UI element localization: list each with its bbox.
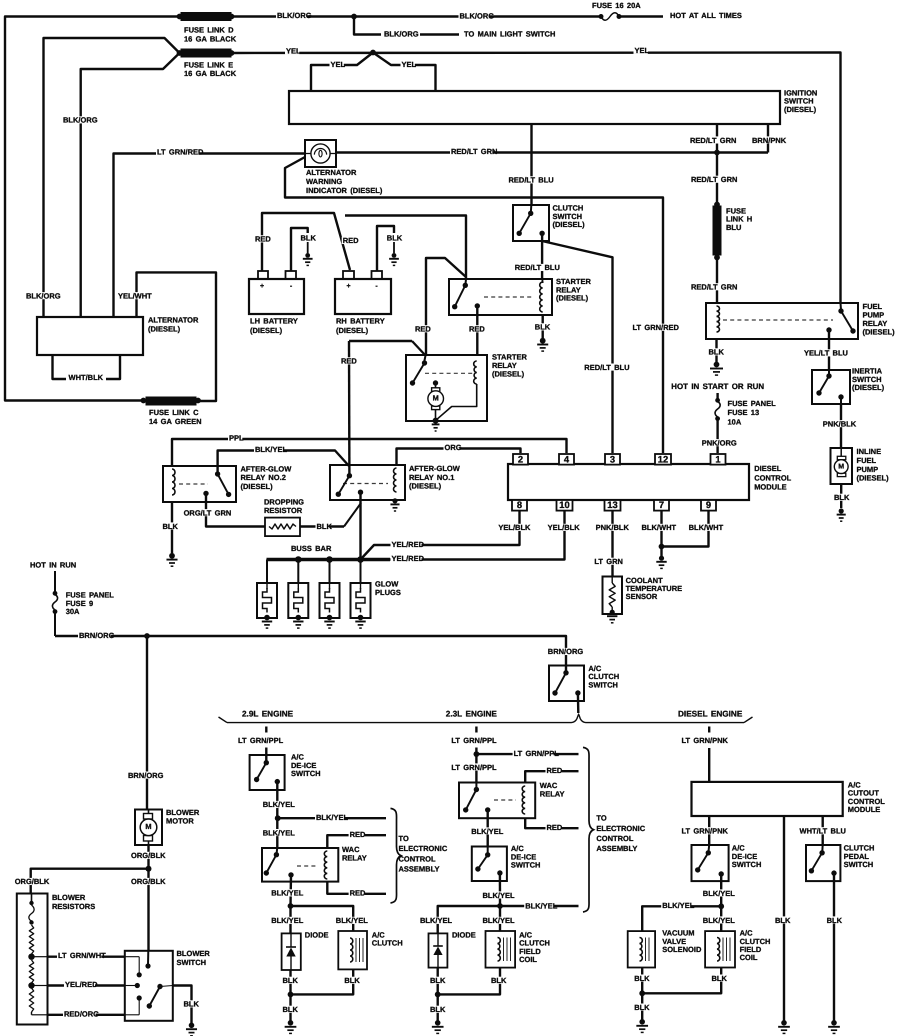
svg-text:(DIESEL): (DIESEL) <box>241 482 274 491</box>
blower resistors <box>17 893 95 1024</box>
a/c de-ice switch 2.3L <box>472 844 541 881</box>
after-glow relay no.1 (diesel) <box>330 464 461 500</box>
svg-text:MODULE: MODULE <box>754 483 787 492</box>
a/c de-ice switch diesel <box>692 844 762 882</box>
fuse link H <box>713 202 752 261</box>
svg-text:+: + <box>260 283 264 290</box>
ground RH battery <box>389 253 399 265</box>
svg-text:2.9L ENGINE: 2.9L ENGINE <box>242 709 294 718</box>
svg-text:HOT AT ALL TIMES: HOT AT ALL TIMES <box>670 11 742 20</box>
svg-text:LT GRN/PPL: LT GRN/PPL <box>238 736 284 745</box>
fuse link E <box>177 49 237 78</box>
svg-text:PUMP: PUMP <box>857 465 879 474</box>
svg-text:YEL/RED: YEL/RED <box>392 554 425 563</box>
wire BLK/YEL wac relay output 2.9L <box>270 875 304 906</box>
junction pin7/pin9 <box>659 544 665 550</box>
alternator (diesel) <box>37 316 199 355</box>
module pin 3 <box>605 454 620 465</box>
ignition switch (diesel) <box>289 88 817 124</box>
svg-text:SWITCH: SWITCH <box>177 958 207 967</box>
svg-text:SOLENOID: SOLENOID <box>662 945 702 954</box>
wire YEL/LT BLU relay to inertia switch <box>803 330 848 370</box>
svg-text:RH BATTERY: RH BATTERY <box>336 316 385 325</box>
clutch pedal switch <box>806 844 874 882</box>
svg-text:BLK/ORG: BLK/ORG <box>384 30 419 39</box>
junction LT GRN/PPL 2.3L <box>474 751 480 757</box>
wire BLK module to ground diesel <box>774 816 791 1021</box>
svg-text:INLINE: INLINE <box>857 447 882 456</box>
svg-text:BLK/YEL: BLK/YEL <box>525 902 558 911</box>
wire PPL after-glow relay no.2 coil to pin 4 <box>172 434 567 466</box>
wire LT GRN/PPL to 2.9L de-ice switch <box>238 736 284 762</box>
wire YEL main to fuel pump relay <box>232 46 842 310</box>
junction BLK 2.9L <box>288 992 294 998</box>
wire BLK blower switch to ground <box>173 986 200 1024</box>
svg-text:13: 13 <box>607 499 617 510</box>
svg-text:YEL: YEL <box>402 60 417 69</box>
wire RED bus to starter relay no.2 <box>414 258 466 355</box>
svg-text:PNK/BLK: PNK/BLK <box>596 523 630 532</box>
wire ORG/LT GRN relay no.2 to dropping resistor <box>183 493 265 526</box>
svg-text:8: 8 <box>517 499 522 510</box>
svg-text:LT GRN/RED: LT GRN/RED <box>633 323 680 332</box>
svg-text:RED/ORG: RED/ORG <box>64 1009 99 1018</box>
fuse link C <box>141 397 202 426</box>
svg-text:RED/LT BLU: RED/LT BLU <box>509 176 554 185</box>
wire BLK/ORG fan upper to alternator pin 1 <box>25 38 180 317</box>
wire YEL/RED buss bar to pin 10 <box>390 511 580 563</box>
wire RED wac coil top 2.9L <box>327 830 386 848</box>
wire RED RH battery positive bus to starter relay <box>342 216 466 286</box>
diode 2.3L <box>429 931 476 968</box>
wire YEL/RED to pin 8 <box>361 511 532 560</box>
glow plugs <box>257 556 401 628</box>
starter relay (diesel) no.1 <box>449 277 591 315</box>
wire a/c clutch switch to divider <box>577 693 580 713</box>
wire BLK dropping resistor to glow plug feed <box>300 503 361 531</box>
svg-text:(DIESEL): (DIESEL) <box>556 294 589 303</box>
wire RED/LT BLU clutch switch to starter relay coil <box>514 233 560 279</box>
svg-text:BRN/PNK: BRN/PNK <box>752 136 787 145</box>
svg-text:YEL: YEL <box>286 47 301 56</box>
svg-text:BLK: BLK <box>430 1005 446 1014</box>
svg-text:SWITCH: SWITCH <box>844 860 874 869</box>
svg-text:MOTOR: MOTOR <box>166 817 194 826</box>
ground starter relay no.1 <box>537 338 548 351</box>
junction BLK/YEL output 2.9L <box>288 903 294 909</box>
svg-text:ELECTRONIC: ELECTRONIC <box>596 824 645 833</box>
a/c clutch switch <box>549 664 619 701</box>
blower motor <box>135 808 200 845</box>
svg-text:DIESEL: DIESEL <box>754 464 782 473</box>
svg-text:WHT/LT BLU: WHT/LT BLU <box>800 827 846 836</box>
wire BLK field coil to ground 2.3L <box>438 968 507 995</box>
svg-text:PLUGS: PLUGS <box>375 588 401 597</box>
wire ORG after-glow relay no.1 coil to pin 2 <box>397 443 521 465</box>
svg-text:LT GRN/PNK: LT GRN/PNK <box>682 736 729 745</box>
svg-text:BLK: BLK <box>827 916 843 925</box>
svg-text:BLK/YEL: BLK/YEL <box>662 901 695 910</box>
svg-text:BLK/YEL: BLK/YEL <box>336 916 369 925</box>
wire BLK inline fuel pump to ground <box>833 484 850 508</box>
svg-text:BLK/ORG: BLK/ORG <box>26 292 61 301</box>
svg-text:FUSE LINK E: FUSE LINK E <box>184 61 233 70</box>
svg-text:RED: RED <box>547 823 563 832</box>
svg-text:(DIESEL): (DIESEL) <box>336 326 369 335</box>
wire RED/LT GRN into fuse link H <box>690 153 737 206</box>
svg-text:BLK: BLK <box>775 916 791 925</box>
svg-text:LT GRN/PNK: LT GRN/PNK <box>682 827 729 836</box>
junction BLK 2.3L <box>435 992 441 998</box>
svg-text:WARNING: WARNING <box>306 177 342 186</box>
junction BLK diesel <box>639 990 645 996</box>
module pin 8 <box>512 499 527 511</box>
wire BLK/YEL to field coil diesel <box>702 906 736 931</box>
wire RED/LT BLU ignition to clutch switch <box>508 124 554 213</box>
svg-text:RED: RED <box>343 236 359 245</box>
a/c de-ice switch 2.9L <box>250 753 321 790</box>
svg-text:ORG/BLK: ORG/BLK <box>15 877 50 886</box>
svg-text:30A: 30A <box>66 607 80 616</box>
svg-text:2.3L ENGINE: 2.3L ENGINE <box>446 709 498 718</box>
wire BLK/YEL wac output to de-ice 2.3L <box>470 810 504 855</box>
wire BLK a/c clutch to ground 2.9L <box>291 969 361 994</box>
wire BLK field coil to ground diesel <box>642 968 727 994</box>
svg-text:RED: RED <box>255 235 271 244</box>
svg-text:PNK/ORG: PNK/ORG <box>702 439 737 448</box>
inline fuel pump (diesel) <box>831 447 890 484</box>
wire BRN/PNK stub from ignition <box>751 124 787 153</box>
ground after-glow relay no.1 coil <box>390 498 399 511</box>
svg-text:ORG: ORG <box>445 443 462 452</box>
junction BLK/YEL 2.3L <box>497 903 503 909</box>
wire BLK/YEL branch to electronic control assembly 2.9L <box>278 813 386 822</box>
alternator warning indicator (diesel) <box>305 140 383 195</box>
svg-text:1: 1 <box>715 454 720 465</box>
svg-text:(DIESEL): (DIESEL) <box>553 220 586 229</box>
wire BLK/ORG fan lower to alternator pin 2 <box>62 53 180 317</box>
svg-text:(DIESEL): (DIESEL) <box>409 482 442 491</box>
wire BLK after-glow relay no.2 coil to ground <box>162 502 179 553</box>
wire BLK to ground 2.3L <box>429 994 446 1021</box>
svg-text:BLK/ORG: BLK/ORG <box>63 116 98 125</box>
wire left border from fuse link D to fuse link C <box>5 17 180 401</box>
wire LT GRN/PPL branch to electronic control assembly 2.3L <box>476 749 578 758</box>
svg-text:(DIESEL): (DIESEL) <box>863 328 896 337</box>
svg-text:M: M <box>433 393 439 402</box>
svg-text:FUSE PANEL: FUSE PANEL <box>728 399 777 408</box>
svg-text:ASSEMBLY: ASSEMBLY <box>596 844 637 853</box>
svg-text:SENSOR: SENSOR <box>626 592 658 601</box>
svg-text:RED: RED <box>547 766 563 775</box>
wire RED/LT GRN fuse link H to fuel pump relay <box>690 258 737 304</box>
svg-text:RED/LT GRN: RED/LT GRN <box>691 175 737 184</box>
dropping resistor <box>264 498 304 537</box>
svg-text:RED: RED <box>350 888 366 897</box>
svg-text:7: 7 <box>659 499 664 510</box>
ground after-glow relay no.2 <box>166 553 177 566</box>
junction BLK/YEL 2.9L <box>275 815 281 821</box>
svg-text:WHT/BLK: WHT/BLK <box>69 373 104 382</box>
svg-text:BLK: BLK <box>283 976 299 985</box>
svg-text:LT GRN/PPL: LT GRN/PPL <box>451 763 497 772</box>
svg-text:COIL: COIL <box>740 953 758 962</box>
svg-text:PPL: PPL <box>229 434 244 443</box>
svg-text:MODULE: MODULE <box>848 805 881 814</box>
diesel control module <box>508 464 792 500</box>
svg-text:TO: TO <box>596 814 606 823</box>
wire BLK/YEL de-ice output diesel <box>702 874 736 906</box>
svg-text:(DIESEL): (DIESEL) <box>250 326 283 335</box>
inertia switch (diesel) <box>812 367 885 404</box>
module pin 1 <box>711 454 726 465</box>
wire to HOT AT ALL TIMES <box>619 11 742 20</box>
svg-text:ELECTRONIC: ELECTRONIC <box>399 844 448 853</box>
svg-text:RED/LT GRN: RED/LT GRN <box>451 147 497 156</box>
svg-text:4: 4 <box>564 454 570 465</box>
svg-text:CLUTCH: CLUTCH <box>372 939 403 948</box>
svg-text:BLK: BLK <box>535 323 551 332</box>
svg-text:LT GRN/WHT: LT GRN/WHT <box>58 951 106 960</box>
svg-text:YEL/BLK: YEL/BLK <box>498 523 531 532</box>
svg-text:RELAY NO.1: RELAY NO.1 <box>409 473 454 482</box>
svg-text:BLK/YEL: BLK/YEL <box>471 827 504 836</box>
svg-text:+: + <box>346 283 350 290</box>
wire BLK/YEL branch to electronic control assembly 2.3L <box>500 902 579 911</box>
svg-text:10: 10 <box>559 499 569 510</box>
wire BLK RH battery negative <box>377 226 403 271</box>
wac relay 2.9L <box>262 845 367 882</box>
brace to electronic control assembly 2.3L <box>583 747 646 912</box>
svg-text:3: 3 <box>610 454 615 465</box>
svg-text:BLK: BLK <box>317 522 333 531</box>
wire BLK clutch pedal switch to ground <box>826 873 843 1021</box>
ground inline fuel pump <box>837 508 846 521</box>
label diesel engine <box>678 709 743 718</box>
svg-text:YEL/RED: YEL/RED <box>392 540 425 549</box>
svg-text:COIL: COIL <box>519 955 537 964</box>
a/c cutout control module <box>692 781 886 817</box>
module pin 7 <box>654 499 669 511</box>
wire BLK/YEL after-glow relay no.2 to relay no.1 <box>218 445 349 474</box>
svg-text:ORG/BLK: ORG/BLK <box>131 851 166 860</box>
svg-text:M: M <box>145 822 151 831</box>
svg-text:BLK: BLK <box>301 233 317 242</box>
svg-text:YEL/LT BLU: YEL/LT BLU <box>804 349 848 358</box>
wire BLK/ORG top to fuse 16 <box>232 11 602 21</box>
svg-text:CONTROL: CONTROL <box>399 855 436 864</box>
svg-text:ORG/BLK: ORG/BLK <box>131 877 166 886</box>
a/c clutch field coil diesel <box>705 929 770 968</box>
wac relay 2.3L <box>459 781 565 818</box>
wire RED/LT BLU clutch switch to module pin 3 <box>542 241 629 453</box>
junction RED/LT GRN <box>714 150 720 156</box>
diode 2.9L <box>282 931 329 971</box>
wire stub diesel <box>708 727 710 733</box>
svg-text:BLK: BLK <box>834 493 850 502</box>
rh battery (diesel) <box>335 271 391 335</box>
svg-text:BLK/YEL: BLK/YEL <box>703 916 736 925</box>
module pin 13 <box>605 499 621 511</box>
svg-text:BLK/YEL: BLK/YEL <box>483 891 516 900</box>
wire RED wac coil top 2.3L <box>525 766 578 783</box>
svg-text:RED: RED <box>350 830 366 839</box>
svg-text:BLK/YEL: BLK/YEL <box>263 800 296 809</box>
wire BLK LH battery negative <box>291 228 316 271</box>
svg-text:M: M <box>838 464 844 471</box>
svg-text:BLK/WHT: BLK/WHT <box>689 523 724 532</box>
wire BLK diode to ground 2.9L <box>282 970 299 994</box>
fuse 16 20A <box>592 1 641 20</box>
wire BLK/YEL to diode 2.3L <box>419 906 500 933</box>
junction BRN/ORG <box>144 633 150 639</box>
wire WHT/BLK alternator bottom stubs <box>53 355 121 382</box>
ground starter motor <box>432 418 440 431</box>
svg-text:BLK: BLK <box>387 233 403 242</box>
svg-text:BLK/WHT: BLK/WHT <box>642 523 677 532</box>
svg-text:BLK/YEL: BLK/YEL <box>316 813 349 822</box>
coolant temperature sensor <box>603 576 683 623</box>
junction top BLK/ORG <box>351 14 357 20</box>
svg-text:FUSE LINK C: FUSE LINK C <box>149 408 199 417</box>
svg-text:RED/LT GRN: RED/LT GRN <box>691 283 737 292</box>
wire stub 2.9L <box>265 727 267 733</box>
svg-text:TO: TO <box>399 834 409 843</box>
label 2.3L engine <box>446 709 498 718</box>
ground blower switch <box>186 1023 197 1036</box>
wire BLK to ground 2.9L <box>282 994 299 1021</box>
svg-text:RESISTORS: RESISTORS <box>52 902 95 911</box>
svg-text:YEL: YEL <box>331 60 346 69</box>
svg-text:HOT IN RUN: HOT IN RUN <box>30 561 76 570</box>
svg-text:16 GA BLACK: 16 GA BLACK <box>184 35 237 44</box>
wire RED wac coil bottom 2.3L <box>525 818 578 832</box>
wire after-glow relay no.1 to buss bar <box>359 492 361 559</box>
wire BLK diode to ground 2.3L <box>429 968 446 995</box>
wire BLK/YEL de-ice to WAC relay 2.9L <box>262 782 296 848</box>
wire BLK/WHT pin 7 to ground <box>641 511 677 556</box>
wire BLK solenoid to ground diesel <box>633 968 650 994</box>
wire LT GRN/PNK to a/c cutout control module <box>682 736 729 782</box>
svg-text:BLK: BLK <box>709 348 725 357</box>
svg-text:ALTERNATOR: ALTERNATOR <box>306 168 357 177</box>
junction YEL <box>370 50 376 56</box>
svg-text:DIODE: DIODE <box>305 931 329 940</box>
ground fuel pump relay <box>710 362 723 376</box>
svg-text:12: 12 <box>658 454 668 465</box>
svg-text:BLU: BLU <box>726 223 741 232</box>
wire BLK/YEL to diode 2.9L <box>270 906 304 933</box>
wire YEL/WHT alternator pin 4 loop to fuse link C <box>117 272 216 401</box>
wire RED wac coil bottom 2.9L <box>327 882 386 898</box>
svg-text:CONTROL: CONTROL <box>754 474 791 483</box>
module pin 12 <box>655 454 671 465</box>
svg-text:(DIESEL): (DIESEL) <box>148 325 181 334</box>
wire YEL branch right into ignition switch <box>373 53 436 92</box>
vacuum valve solenoid <box>628 929 702 968</box>
fuse link D <box>177 13 237 44</box>
blower switch <box>125 949 211 1021</box>
wire BLK/WHT pin 9 to pin 7 ground <box>662 511 724 547</box>
svg-text:BLK/YEL: BLK/YEL <box>703 889 736 898</box>
svg-text:PNK/BLK: PNK/BLK <box>823 420 857 429</box>
junction ORG/BLK <box>146 866 152 872</box>
fuel pump relay (diesel) <box>706 302 895 339</box>
svg-text:BLK/YEL: BLK/YEL <box>255 445 288 454</box>
svg-text:RELAY NO.2: RELAY NO.2 <box>241 473 286 482</box>
wire YEL branch left into ignition switch <box>311 53 373 92</box>
a/c clutch field coil 2.3L <box>486 931 550 968</box>
wire RED/LT GRN stub from ignition <box>689 124 736 153</box>
svg-text:BLK: BLK <box>634 974 650 983</box>
svg-text:AFTER-GLOW: AFTER-GLOW <box>241 465 293 474</box>
engine divider line <box>219 714 753 722</box>
svg-text:SWITCH: SWITCH <box>291 769 321 778</box>
svg-text:RED: RED <box>341 357 357 366</box>
svg-text:BRN/ORG: BRN/ORG <box>128 771 164 780</box>
ground 2.9L <box>285 1020 297 1033</box>
svg-text:BLK/YEL: BLK/YEL <box>271 916 304 925</box>
svg-text:BLK: BLK <box>491 976 507 985</box>
svg-text:RED/LT BLU: RED/LT BLU <box>515 263 560 272</box>
wire RED starter relay no.1 to starter relay no.2 coil <box>468 306 485 356</box>
wire RED LH battery positive bus <box>254 213 350 271</box>
module pin 2 <box>513 454 528 465</box>
svg-text:INDICATOR (DIESEL): INDICATOR (DIESEL) <box>306 186 383 195</box>
svg-text:BLK: BLK <box>184 1000 200 1009</box>
svg-text:LT GRN: LT GRN <box>594 557 623 566</box>
label 2.9L engine <box>242 709 294 718</box>
svg-text:LT GRN/PPL: LT GRN/PPL <box>451 736 497 745</box>
svg-text:BLK/YEL: BLK/YEL <box>271 889 304 898</box>
wire BLK fuel pump relay coil to ground <box>708 339 725 362</box>
svg-text:YEL/RED: YEL/RED <box>65 980 98 989</box>
wire LT GRN/PNK module to de-ice diesel <box>681 816 729 853</box>
wire YEL/RED resistor tap 2 <box>32 980 125 989</box>
svg-text:RELAY: RELAY <box>540 790 565 799</box>
svg-text:BUSS BAR: BUSS BAR <box>291 544 332 553</box>
wire BLK/YEL de-ice output 2.3L <box>482 873 516 906</box>
svg-text:BLK/YEL: BLK/YEL <box>263 828 296 837</box>
after-glow relay no.2 (diesel) <box>163 465 292 503</box>
svg-text:9: 9 <box>706 499 711 510</box>
svg-text:ALTERNATOR: ALTERNATOR <box>148 316 199 325</box>
module pin 4 <box>559 454 574 465</box>
brace to electronic control assembly 2.9L <box>391 808 448 903</box>
svg-text:FUSE 13: FUSE 13 <box>728 408 760 417</box>
svg-text:SWITCH: SWITCH <box>732 860 762 869</box>
svg-text:BLK/ORG: BLK/ORG <box>277 11 312 20</box>
svg-text:HOT IN START OR RUN: HOT IN START OR RUN <box>671 382 764 391</box>
svg-text:SWITCH: SWITCH <box>511 861 541 870</box>
svg-text:BLK: BLK <box>634 1003 650 1012</box>
svg-text:DIESEL ENGINE: DIESEL ENGINE <box>678 709 743 718</box>
svg-text:FUEL: FUEL <box>857 456 877 465</box>
svg-text:BLK: BLK <box>163 522 179 531</box>
svg-text:FUSE LINK D: FUSE LINK D <box>184 26 234 35</box>
ground 2.3L <box>432 1020 444 1033</box>
svg-text:BRN/ORG: BRN/ORG <box>548 647 584 656</box>
svg-text:16 GA BLACK: 16 GA BLACK <box>184 69 237 78</box>
wire LT GRN pin 13 to coolant sensor <box>593 511 629 577</box>
ground pins 7 and 9 <box>656 556 666 569</box>
wire RED/LT GRN indicator to ignition BRN/PNK stub <box>336 147 768 156</box>
svg-text:BLOWER: BLOWER <box>52 893 86 902</box>
svg-text:LT GRN/RED: LT GRN/RED <box>157 148 204 157</box>
wire WHT/LT BLU module to clutch pedal switch <box>799 816 846 853</box>
module pin 10 <box>557 499 573 511</box>
svg-text:RED/LT BLU: RED/LT BLU <box>584 363 629 372</box>
